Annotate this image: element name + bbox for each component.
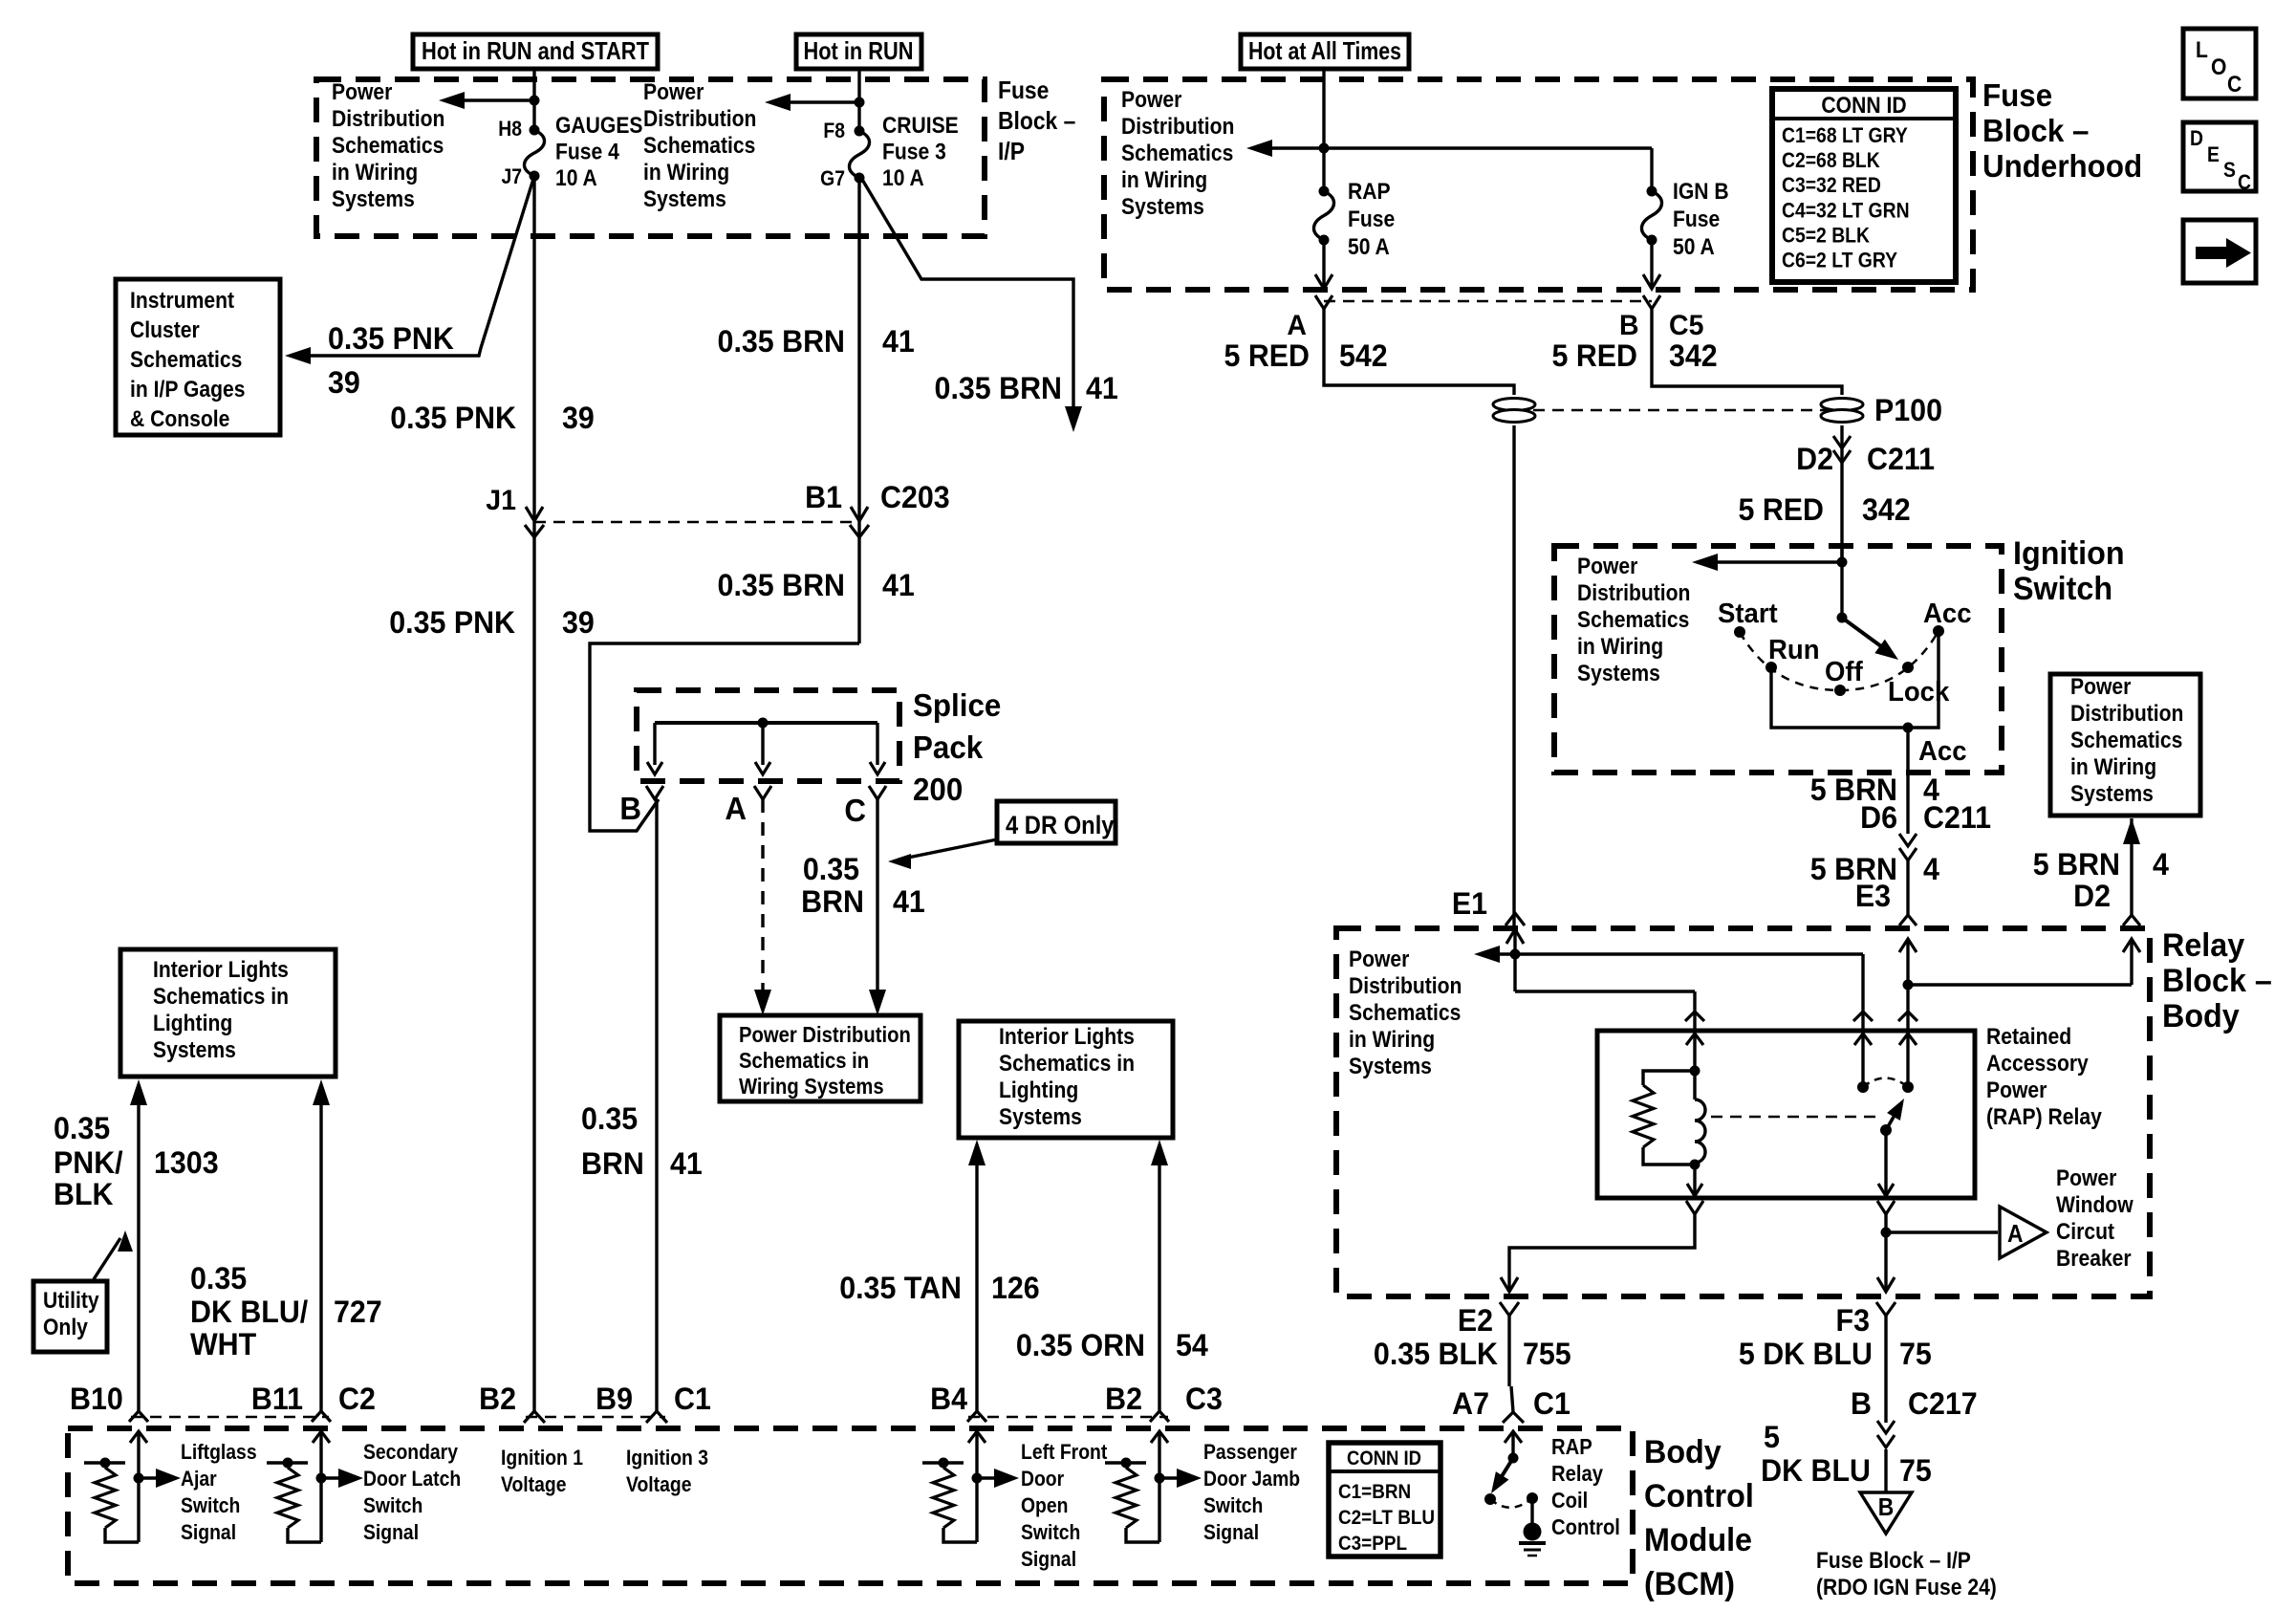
svg-text:Signal: Signal (363, 1521, 419, 1544)
svg-text:Fuse: Fuse (1673, 207, 1720, 232)
svg-text:C3=32 RED: C3=32 RED (1782, 174, 1881, 197)
svg-text:Schematics: Schematics (643, 133, 755, 159)
svg-text:Secondary: Secondary (363, 1441, 458, 1464)
svg-text:Module: Module (1644, 1522, 1752, 1558)
svg-text:Control: Control (1551, 1514, 1620, 1540)
svg-text:in Wiring: in Wiring (1349, 1027, 1435, 1053)
svg-text:Schematics: Schematics (1577, 607, 1689, 633)
svg-text:0.35 BRN: 0.35 BRN (718, 568, 845, 602)
svg-text:B2: B2 (1105, 1382, 1142, 1416)
svg-text:Power: Power (1349, 947, 1410, 972)
svg-text:Only: Only (43, 1315, 88, 1340)
svg-text:Distribution: Distribution (1577, 580, 1690, 606)
svg-text:5: 5 (1764, 1420, 1780, 1454)
svg-text:Coil: Coil (1551, 1488, 1588, 1513)
svg-text:in Wiring: in Wiring (1577, 634, 1663, 660)
svg-text:Systems: Systems (153, 1037, 236, 1063)
svg-text:200: 200 (913, 772, 963, 807)
svg-text:BRN: BRN (581, 1146, 644, 1181)
svg-text:C203: C203 (880, 480, 950, 514)
svg-text:J7: J7 (501, 165, 522, 188)
svg-text:342: 342 (1862, 492, 1911, 527)
svg-text:B: B (1851, 1386, 1872, 1421)
svg-text:75: 75 (1899, 1453, 1932, 1488)
svg-text:Schematics: Schematics (1121, 141, 1233, 166)
svg-text:& Console: & Console (130, 406, 229, 432)
svg-text:Lock: Lock (1888, 675, 1950, 707)
svg-text:Systems: Systems (999, 1104, 1082, 1130)
svg-text:Distribution: Distribution (2070, 701, 2183, 727)
svg-text:50 A: 50 A (1673, 234, 1715, 260)
svg-text:0.35 ORN: 0.35 ORN (1016, 1328, 1145, 1362)
svg-text:in I/P Gages: in I/P Gages (130, 377, 245, 403)
svg-text:5 RED: 5 RED (1224, 338, 1310, 373)
svg-text:Distribution: Distribution (1121, 114, 1234, 140)
svg-text:41: 41 (882, 324, 915, 359)
svg-text:B: B (619, 791, 641, 826)
svg-text:Start: Start (1718, 597, 1778, 628)
svg-text:Systems: Systems (1121, 194, 1204, 220)
svg-text:C5: C5 (1669, 310, 1703, 341)
svg-text:Distribution: Distribution (1349, 973, 1462, 999)
svg-text:CONN ID: CONN ID (1821, 93, 1906, 119)
svg-text:Instrument: Instrument (130, 288, 235, 314)
svg-text:41: 41 (1086, 371, 1118, 405)
svg-text:0.35: 0.35 (581, 1101, 638, 1136)
svg-text:542: 542 (1339, 338, 1388, 373)
svg-text:Retained: Retained (1986, 1024, 2071, 1050)
svg-text:C5=2 BLK: C5=2 BLK (1782, 224, 1870, 247)
svg-text:5 DK BLU: 5 DK BLU (1739, 1337, 1873, 1371)
svg-text:C: C (2227, 72, 2242, 98)
svg-text:0.35: 0.35 (803, 852, 859, 886)
svg-text:Power: Power (1986, 1078, 2047, 1103)
svg-text:Pack: Pack (913, 729, 983, 765)
svg-text:Interior Lights: Interior Lights (153, 957, 289, 983)
svg-text:Breaker: Breaker (2056, 1246, 2132, 1272)
svg-text:BRN: BRN (801, 884, 864, 919)
svg-text:10 A: 10 A (555, 165, 597, 191)
svg-text:Accessory: Accessory (1986, 1051, 2089, 1077)
svg-text:Schematics in: Schematics in (999, 1051, 1135, 1077)
svg-text:39: 39 (562, 401, 595, 435)
svg-text:Switch: Switch (2013, 571, 2112, 607)
svg-text:Ignition 1: Ignition 1 (501, 1447, 583, 1469)
svg-text:Block –: Block – (998, 108, 1075, 136)
svg-text:Splice: Splice (913, 687, 1001, 723)
svg-text:WHT: WHT (190, 1327, 256, 1361)
svg-text:C217: C217 (1908, 1386, 1978, 1421)
svg-text:B: B (1619, 310, 1639, 341)
svg-text:B1: B1 (805, 480, 842, 514)
svg-text:Signal: Signal (181, 1521, 236, 1544)
svg-text:Signal: Signal (1021, 1548, 1076, 1571)
svg-text:Fuse: Fuse (1982, 77, 2052, 113)
svg-text:E: E (2207, 143, 2220, 166)
svg-text:39: 39 (562, 605, 595, 640)
svg-text:Power: Power (1577, 554, 1638, 579)
svg-text:0.35 TAN: 0.35 TAN (839, 1271, 962, 1305)
svg-text:C1: C1 (674, 1382, 711, 1416)
svg-text:Distribution: Distribution (643, 106, 756, 132)
svg-text:Power: Power (2070, 674, 2132, 700)
svg-text:A: A (725, 791, 747, 826)
svg-text:0.35 BLK: 0.35 BLK (1374, 1337, 1499, 1371)
svg-text:342: 342 (1669, 338, 1718, 373)
svg-text:Door Jamb: Door Jamb (1203, 1468, 1300, 1491)
svg-text:in Wiring: in Wiring (1121, 167, 1207, 193)
svg-text:Cluster: Cluster (130, 317, 200, 343)
svg-text:Hot in RUN: Hot in RUN (804, 36, 914, 65)
svg-text:4: 4 (2153, 847, 2170, 882)
svg-text:Fuse 4: Fuse 4 (555, 139, 619, 164)
svg-text:75: 75 (1899, 1337, 1932, 1371)
svg-text:C211: C211 (1923, 800, 1991, 835)
svg-text:Wiring Systems: Wiring Systems (739, 1074, 884, 1099)
svg-text:0.35 BRN: 0.35 BRN (935, 371, 1062, 405)
svg-text:Ignition 3: Ignition 3 (626, 1447, 708, 1469)
svg-text:Lighting: Lighting (153, 1011, 232, 1036)
svg-text:Ajar: Ajar (181, 1468, 217, 1491)
svg-text:Schematics: Schematics (1349, 1000, 1461, 1026)
svg-text:Power: Power (2056, 1165, 2117, 1191)
svg-text:G7: G7 (820, 167, 845, 190)
svg-text:Door Latch: Door Latch (363, 1468, 461, 1491)
svg-text:D6: D6 (1860, 800, 1897, 835)
svg-text:0.35 PNK: 0.35 PNK (390, 401, 516, 435)
svg-text:O: O (2211, 54, 2226, 80)
svg-text:Fuse: Fuse (1348, 207, 1395, 232)
svg-text:Underhood: Underhood (1982, 148, 2142, 184)
svg-text:Systems: Systems (332, 186, 415, 212)
svg-text:(RDO IGN Fuse 24): (RDO IGN Fuse 24) (1816, 1575, 1997, 1600)
svg-text:C4=32 LT GRN: C4=32 LT GRN (1782, 199, 1910, 222)
svg-text:Systems: Systems (2070, 781, 2154, 807)
svg-text:Power: Power (332, 79, 393, 105)
svg-text:Control: Control (1644, 1478, 1754, 1514)
svg-text:Power Distribution: Power Distribution (739, 1022, 911, 1048)
svg-text:Relay: Relay (2162, 927, 2245, 964)
svg-text:J1: J1 (486, 485, 516, 516)
svg-text:4: 4 (1923, 852, 1940, 886)
svg-text:Schematics: Schematics (332, 133, 444, 159)
svg-text:B9: B9 (596, 1382, 633, 1416)
svg-text:C211: C211 (1867, 442, 1935, 476)
svg-text:C2: C2 (338, 1382, 376, 1416)
svg-text:54: 54 (1176, 1328, 1208, 1362)
svg-text:C: C (2238, 171, 2251, 194)
svg-text:4 DR Only: 4 DR Only (1006, 812, 1115, 840)
svg-text:C2=68 BLK: C2=68 BLK (1782, 149, 1880, 172)
svg-text:41: 41 (670, 1146, 703, 1181)
svg-text:in Wiring: in Wiring (2070, 754, 2156, 780)
svg-text:L: L (2196, 37, 2208, 63)
svg-text:41: 41 (882, 568, 915, 602)
svg-text:I/P: I/P (998, 139, 1025, 166)
svg-text:C: C (844, 793, 866, 828)
svg-text:Fuse Block – I/P: Fuse Block – I/P (1816, 1548, 1971, 1574)
svg-text:in Wiring: in Wiring (332, 160, 418, 185)
svg-text:Voltage: Voltage (501, 1473, 566, 1496)
svg-text:Passenger: Passenger (1203, 1441, 1297, 1464)
svg-text:A: A (1287, 310, 1307, 341)
svg-text:5 RED: 5 RED (1738, 492, 1824, 527)
svg-text:Switch: Switch (181, 1494, 240, 1517)
svg-text:C1: C1 (1533, 1386, 1570, 1421)
svg-text:A: A (2007, 1221, 2024, 1249)
svg-text:DK BLU: DK BLU (1761, 1453, 1871, 1488)
svg-text:0.35: 0.35 (190, 1261, 247, 1295)
svg-text:E2: E2 (1458, 1303, 1493, 1338)
svg-text:0.35 BRN: 0.35 BRN (718, 324, 845, 359)
svg-text:DK BLU/: DK BLU/ (190, 1295, 309, 1329)
svg-text:Circut: Circut (2056, 1219, 2114, 1245)
svg-text:Schematics in: Schematics in (739, 1048, 869, 1074)
svg-text:B: B (1878, 1494, 1895, 1522)
svg-text:Liftglass: Liftglass (181, 1441, 257, 1464)
svg-text:Hot at All Times: Hot at All Times (1248, 36, 1401, 65)
svg-text:Interior Lights: Interior Lights (999, 1024, 1135, 1050)
svg-text:C3: C3 (1185, 1382, 1223, 1416)
svg-text:E1: E1 (1452, 886, 1487, 921)
svg-text:Run: Run (1768, 633, 1820, 664)
svg-text:Block –: Block – (2162, 963, 2272, 999)
svg-text:755: 755 (1523, 1337, 1571, 1371)
svg-text:Block –: Block – (1982, 113, 2089, 148)
svg-text:in Wiring: in Wiring (643, 160, 729, 185)
svg-text:0.35 PNK: 0.35 PNK (328, 321, 454, 356)
svg-text:H8: H8 (498, 118, 522, 141)
svg-text:50 A: 50 A (1348, 234, 1390, 260)
svg-text:Schematics: Schematics (2070, 728, 2182, 753)
svg-text:C1=BRN: C1=BRN (1338, 1481, 1411, 1503)
svg-text:C2=LT BLU: C2=LT BLU (1338, 1507, 1435, 1529)
svg-text:CRUISE: CRUISE (882, 113, 959, 139)
svg-text:Body: Body (2162, 998, 2240, 1034)
svg-text:Switch: Switch (1021, 1521, 1080, 1544)
svg-text:Power: Power (1121, 87, 1182, 113)
svg-text:(BCM): (BCM) (1644, 1566, 1735, 1602)
svg-text:CONN ID: CONN ID (1347, 1448, 1421, 1469)
svg-text:Door: Door (1021, 1468, 1064, 1491)
svg-text:1303: 1303 (154, 1145, 219, 1180)
svg-text:Switch: Switch (1203, 1494, 1263, 1517)
svg-text:Voltage: Voltage (626, 1473, 691, 1496)
svg-text:GAUGES: GAUGES (555, 113, 642, 139)
svg-text:Acc: Acc (1923, 597, 1972, 628)
svg-text:Acc: Acc (1918, 734, 1967, 766)
svg-text:Switch: Switch (363, 1494, 422, 1517)
svg-text:IGN B: IGN B (1673, 179, 1729, 205)
svg-text:Fuse: Fuse (998, 77, 1049, 105)
svg-text:Distribution: Distribution (332, 106, 444, 132)
svg-text:E3: E3 (1855, 879, 1891, 913)
svg-text:41: 41 (893, 884, 925, 919)
svg-text:BLK: BLK (54, 1177, 114, 1211)
svg-text:F3: F3 (1836, 1303, 1870, 1338)
svg-text:Systems: Systems (1577, 661, 1660, 686)
svg-text:Left Front: Left Front (1021, 1441, 1107, 1464)
svg-text:S: S (2223, 159, 2236, 182)
svg-text:P100: P100 (1874, 393, 1942, 427)
svg-text:C3=PPL: C3=PPL (1338, 1533, 1407, 1555)
svg-text:Open: Open (1021, 1494, 1068, 1517)
svg-text:727: 727 (334, 1295, 382, 1329)
svg-text:A7: A7 (1452, 1386, 1489, 1421)
svg-text:Window: Window (2056, 1192, 2134, 1218)
svg-text:Off: Off (1825, 655, 1863, 686)
svg-text:Systems: Systems (643, 186, 726, 212)
svg-text:126: 126 (991, 1271, 1040, 1305)
svg-text:(RAP) Relay: (RAP) Relay (1986, 1104, 2102, 1130)
svg-text:B11: B11 (251, 1382, 303, 1416)
svg-text:Lighting: Lighting (999, 1078, 1078, 1103)
svg-text:B2: B2 (479, 1382, 516, 1416)
svg-text:D2: D2 (1796, 442, 1833, 476)
svg-text:Power: Power (643, 79, 704, 105)
svg-text:5 BRN: 5 BRN (2033, 847, 2120, 882)
svg-text:39: 39 (328, 365, 360, 400)
svg-text:C6=2 LT GRY: C6=2 LT GRY (1782, 249, 1897, 272)
svg-text:5 RED: 5 RED (1551, 338, 1637, 373)
svg-text:Systems: Systems (1349, 1054, 1432, 1079)
svg-text:Schematics in: Schematics in (153, 984, 289, 1010)
svg-text:Hot in RUN and START: Hot in RUN and START (422, 36, 649, 65)
svg-text:D2: D2 (2073, 879, 2111, 913)
svg-text:Signal: Signal (1203, 1521, 1259, 1544)
svg-text:PNK/: PNK/ (54, 1145, 123, 1180)
svg-text:B4: B4 (930, 1382, 967, 1416)
svg-text:B10: B10 (70, 1382, 123, 1416)
svg-text:F8: F8 (823, 120, 845, 142)
svg-text:RAP: RAP (1551, 1434, 1592, 1460)
svg-text:D: D (2190, 127, 2203, 150)
svg-text:0.35: 0.35 (54, 1111, 110, 1145)
svg-text:Fuse 3: Fuse 3 (882, 139, 946, 164)
svg-text:10 A: 10 A (882, 165, 924, 191)
svg-text:RAP: RAP (1348, 179, 1391, 205)
svg-text:Body: Body (1644, 1434, 1722, 1470)
svg-text:C1=68 LT GRY: C1=68 LT GRY (1782, 124, 1908, 147)
svg-text:Schematics: Schematics (130, 347, 242, 373)
svg-text:Relay: Relay (1551, 1461, 1603, 1487)
svg-text:0.35 PNK: 0.35 PNK (389, 605, 515, 640)
svg-text:Utility: Utility (43, 1288, 99, 1314)
svg-text:Ignition: Ignition (2013, 535, 2125, 572)
